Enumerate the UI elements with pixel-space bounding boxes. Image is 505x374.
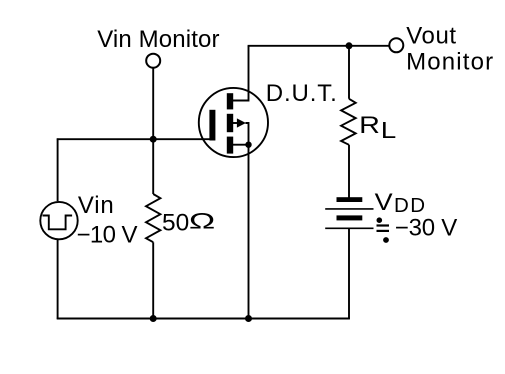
wire source to bottom rail [248, 145, 250, 319]
svg-text:DD: DD [394, 194, 425, 217]
wire 50ohm upper [152, 139, 154, 194]
svg-text:Ω: Ω [189, 209, 215, 234]
MOSFET channel bar source segment [227, 137, 233, 154]
svg-text:V: V [375, 189, 394, 216]
node body-source dot [245, 142, 251, 148]
battery VDD plate 2 thin [325, 208, 373, 210]
wire RL to battery [348, 145, 350, 199]
node gate junction [150, 136, 157, 143]
node bottom junction source [245, 315, 252, 322]
MOSFET Q1 D.U.T. circle [199, 88, 268, 157]
node bottom junction 50ohm [150, 315, 157, 322]
svg-text:Monitor: Monitor [406, 49, 493, 76]
MOSFET channel bar drain segment [227, 93, 233, 109]
svg-text:R: R [359, 112, 380, 139]
wire RL upper [348, 46, 350, 99]
MOSFET gate bar [209, 110, 215, 141]
wire top rail [248, 45, 390, 47]
wire battery to bottom rail [348, 228, 350, 319]
svg-text:Vin: Vin [78, 192, 114, 219]
wire gate horizontal [57, 138, 210, 140]
svg-text:Vin Monitor: Vin Monitor [97, 26, 219, 53]
terminal Vout Monitor [389, 38, 403, 52]
resistor 50ohm [146, 194, 160, 242]
wire bottom rail [57, 318, 350, 320]
battery polarity symbol [377, 217, 383, 223]
svg-text:D.U.T.: D.U.T. [266, 80, 337, 107]
resistor RL [341, 99, 356, 145]
node top junction [346, 42, 353, 49]
svg-text:L: L [381, 117, 397, 143]
terminal Vin Monitor [146, 54, 160, 68]
pulse source Vin [40, 202, 77, 239]
MOSFET channel bar body segment [227, 114, 233, 132]
MOSFET body arrow [233, 122, 237, 124]
wire left rail lower [57, 240, 59, 319]
MOSFET source lead inside [233, 144, 249, 146]
MOSFET drain lead inside [233, 46, 249, 101]
svg-text:−10 V: −10 V [77, 221, 138, 248]
wire Vin Monitor to gate node [152, 68, 154, 139]
svg-text:−30 V: −30 V [395, 215, 458, 242]
wire 50ohm lower [152, 242, 154, 318]
svg-text:Vout: Vout [406, 23, 456, 50]
battery VDD plate 1 thick [337, 197, 363, 202]
wire left rail upper [57, 138, 59, 201]
battery VDD plate 3 thick [337, 215, 363, 220]
svg-text:50: 50 [162, 210, 189, 237]
battery VDD plate 4 thin [325, 227, 373, 229]
